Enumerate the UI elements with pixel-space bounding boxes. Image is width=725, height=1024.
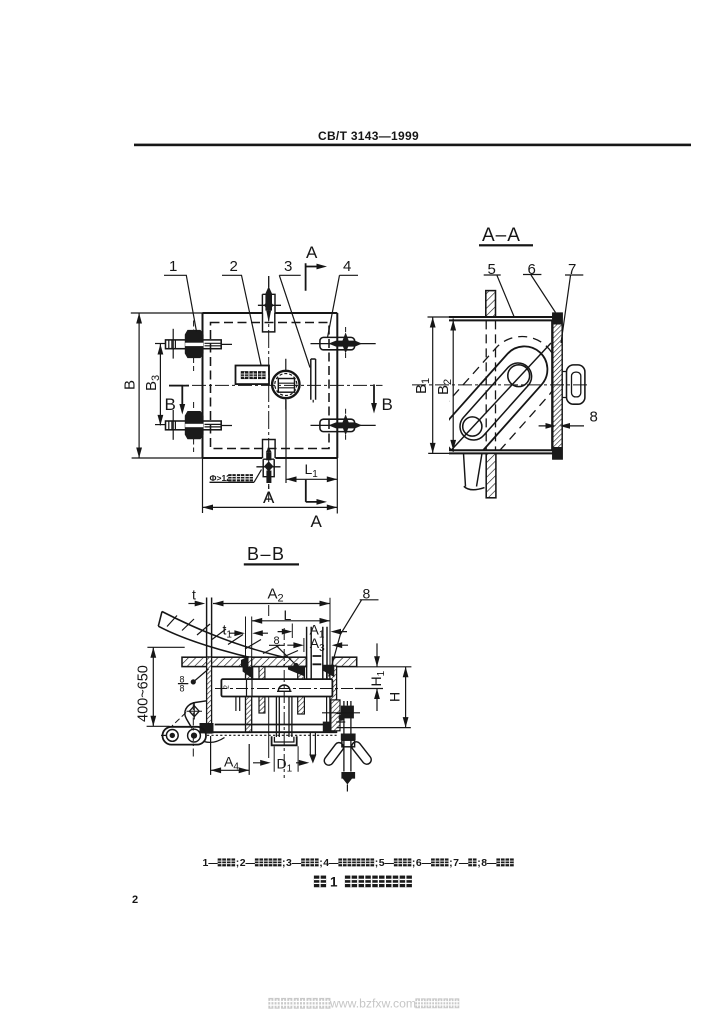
- weld blob pipe/deck: [288, 666, 305, 677]
- svg-text:H1: H1: [368, 670, 387, 686]
- chain size note: [210, 470, 262, 483]
- part label 8 leader: [329, 600, 379, 677]
- svg-text:;: ;: [477, 857, 481, 869]
- svg-text:H: H: [387, 692, 403, 702]
- svg-text:;: ;: [282, 857, 286, 869]
- watermark: [268, 997, 459, 1011]
- slide bolt bar (part 8): [221, 679, 332, 696]
- weld blob wedge tip: [241, 656, 249, 672]
- section arrow A bottom: [306, 480, 327, 505]
- wing screw bracket: [331, 700, 345, 731]
- guide bracket B above bar: [298, 667, 305, 680]
- right edge extension down: [336, 458, 338, 514]
- right extension up: [329, 598, 331, 666]
- weld label 8 mid leader: [269, 645, 295, 663]
- svg-text:L1: L1: [305, 461, 319, 480]
- screw clamp lower: [311, 409, 376, 442]
- dim t1: [229, 630, 268, 636]
- wing nut collar: [341, 734, 356, 741]
- dim A2: [213, 601, 330, 607]
- dimension B: [136, 313, 142, 458]
- hinge lower: pin cylinder: [155, 402, 232, 452]
- dim H1: [355, 643, 383, 711]
- svg-text:B: B: [165, 395, 176, 414]
- pocket hanger: [236, 697, 240, 712]
- dimension B3: [158, 344, 164, 425]
- bulkhead below deck (hatched): [207, 657, 212, 733]
- svg-text:;: ;: [375, 857, 379, 869]
- svg-text:3—: 3—: [286, 857, 303, 869]
- svg-text:B: B: [382, 395, 393, 414]
- top edge extension left: [131, 312, 203, 314]
- svg-text:Φ>12: Φ>12: [210, 473, 232, 483]
- svg-text:6: 6: [528, 261, 536, 278]
- svg-text:6—: 6—: [416, 857, 433, 869]
- box left wall extension up: [246, 617, 252, 658]
- B-B texts: [136, 544, 403, 775]
- svg-text:8: 8: [274, 635, 280, 647]
- title A-A underline: [479, 244, 533, 246]
- part label 1 leader: [164, 275, 197, 331]
- chain note text: [210, 473, 253, 483]
- svg-text:A4: A4: [224, 754, 239, 773]
- weld blob bottom left: [200, 723, 214, 733]
- part label 7 leader: [561, 275, 583, 343]
- dim t: [188, 601, 223, 607]
- hinge link: [161, 727, 225, 745]
- svg-text:A2: A2: [268, 586, 284, 605]
- plan view texts: [122, 243, 393, 531]
- bar notch dome: [277, 685, 292, 691]
- svg-text:2: 2: [230, 258, 238, 275]
- svg-text:B1: B1: [413, 378, 432, 394]
- thickness dim 8: [539, 423, 584, 429]
- wing right blade: [350, 740, 373, 766]
- small bolt below box: [310, 732, 315, 754]
- hinge R1 upper: pin cylinder: [155, 321, 232, 372]
- wing screw hex nut: [341, 706, 354, 719]
- cover inner wall line: [551, 320, 553, 450]
- svg-text:8: 8: [590, 409, 598, 426]
- part label 4 leader: [328, 275, 359, 337]
- section arrow B left: [169, 386, 189, 415]
- hinge lower: hex nut: [185, 411, 204, 439]
- svg-text:CB/T 3143—1999: CB/T 3143—1999: [318, 129, 419, 143]
- chain pipe below box: [464, 453, 485, 489]
- chain link circle lower: [463, 417, 482, 436]
- handle (part 3) plan: [311, 359, 316, 400]
- svg-text:;: ;: [449, 857, 453, 869]
- svg-text:t: t: [192, 587, 196, 603]
- svg-text:A: A: [311, 512, 323, 531]
- header rule: [134, 144, 691, 147]
- screw clamp upper: [311, 327, 376, 360]
- dim A1: [278, 624, 347, 639]
- weld label 8/8 left: [178, 669, 209, 684]
- svg-text:;: ;: [412, 857, 416, 869]
- box left wall: [246, 657, 252, 732]
- box right wall + cover: [330, 666, 337, 732]
- svg-text:1: 1: [330, 875, 338, 890]
- svg-text:2: 2: [224, 685, 231, 689]
- svg-text:400~650: 400~650: [136, 665, 152, 722]
- chain link circle upper: [508, 365, 530, 387]
- svg-text:8: 8: [180, 684, 185, 694]
- svg-text:5—: 5—: [379, 857, 396, 869]
- bottom plate: [215, 724, 333, 726]
- svg-text:4—: 4—: [323, 857, 340, 869]
- svg-text:8: 8: [363, 586, 371, 602]
- dimension B1: [430, 317, 436, 453]
- shell wedge plate: [158, 612, 302, 669]
- deck plate right (hatched): [333, 657, 357, 666]
- bottom edge extension left: [132, 457, 203, 459]
- svg-text:;: ;: [236, 857, 240, 869]
- hinge R1 upper: hex nut: [185, 330, 204, 358]
- pipe weld marks: [313, 656, 322, 664]
- horizontal centerline: [169, 384, 383, 386]
- figure caption: [314, 875, 412, 890]
- wing left blade: [322, 741, 345, 767]
- svg-text:A: A: [306, 243, 318, 262]
- chain pipe vertical: [307, 627, 327, 679]
- svg-text:A–A: A–A: [482, 225, 521, 246]
- guide bracket A below bar: [259, 697, 265, 714]
- D1 left extension via notch: [268, 605, 270, 758]
- guide bracket A above bar: [259, 667, 265, 680]
- svg-text:B2: B2: [435, 379, 454, 395]
- dim D1: [253, 746, 309, 772]
- dim A4: [211, 736, 250, 775]
- left edge extension down: [202, 458, 204, 513]
- top keeper latch: [258, 276, 281, 332]
- cover plate (hatched): [553, 313, 562, 459]
- svg-text:B–B: B–B: [247, 544, 286, 564]
- centerline A-A: [412, 384, 589, 386]
- bulkhead above box (hatched): [486, 291, 496, 318]
- bulkhead below box (hatched): [486, 453, 496, 497]
- bulkhead above deck: [207, 598, 212, 658]
- svg-text:7—: 7—: [453, 857, 470, 869]
- box outline plan view: [203, 313, 338, 458]
- weld blob left wall/deck: [243, 667, 254, 680]
- dim H: [337, 667, 411, 728]
- section arrow B right: [371, 384, 377, 413]
- part label 2 leader: [222, 275, 261, 365]
- chain diagonal: [450, 343, 552, 452]
- A-A texts: [413, 225, 598, 426]
- svg-text:;: ;: [319, 857, 323, 869]
- dim 400~650: [147, 647, 185, 726]
- deck plate left (hatched): [182, 657, 306, 666]
- handle: [562, 365, 585, 404]
- svg-text:B: B: [122, 380, 139, 390]
- caption legend line: [203, 857, 514, 869]
- rod end arrow: [341, 772, 355, 785]
- pipe centerline: [283, 628, 285, 778]
- svg-text:5: 5: [488, 261, 496, 278]
- weld blob bottom right: [323, 722, 335, 733]
- part label 3 leader: [279, 275, 310, 367]
- dimension L1: [286, 400, 337, 483]
- box bottom extension left: [428, 452, 449, 454]
- bar pocket wall line: [247, 679, 253, 696]
- section arrow A top: [306, 263, 327, 291]
- svg-text:1: 1: [169, 258, 177, 275]
- bottom keeper latch: [256, 440, 280, 490]
- bulkhead hidden (dashed) through box: [486, 320, 495, 450]
- svg-text:A: A: [263, 488, 275, 507]
- svg-text:B3: B3: [143, 375, 162, 391]
- svg-text:8—: 8—: [481, 857, 498, 869]
- svg-text:2: 2: [132, 894, 138, 906]
- hinge bracket: [172, 701, 207, 757]
- dim A3: [287, 638, 348, 652]
- title B-B underline: [244, 563, 299, 565]
- svg-text:www.bzfxw.com: www.bzfxw.com: [329, 997, 416, 1011]
- svg-text:2—: 2—: [240, 857, 257, 869]
- dim L: [252, 618, 330, 624]
- part label 5 leader: [484, 275, 514, 317]
- warning plate: [236, 366, 270, 385]
- box top extension left: [428, 316, 449, 318]
- svg-text:t1: t1: [223, 622, 233, 641]
- box top wall: [449, 317, 556, 320]
- deck extension line right: [357, 666, 412, 668]
- wing screw rod: [344, 701, 351, 772]
- dimension B2: [450, 319, 456, 452]
- weld blob right wall/deck: [323, 665, 335, 678]
- svg-text:L: L: [284, 607, 292, 623]
- svg-text:3: 3: [284, 258, 292, 275]
- packing top (black): [552, 313, 562, 324]
- cover dashed outline: [211, 323, 330, 449]
- guide bracket B below bar: [298, 697, 305, 715]
- packing bottom (black): [552, 447, 562, 459]
- drain socket: [272, 697, 297, 746]
- porthole nut: [272, 359, 299, 410]
- bolt centerline: [215, 688, 383, 690]
- box bottom wall: [449, 450, 562, 453]
- svg-text:4: 4: [343, 258, 351, 275]
- svg-text:7: 7: [568, 261, 576, 278]
- dimension A bottom: [203, 505, 338, 511]
- svg-text:1—: 1—: [203, 857, 220, 869]
- part label 6 leader: [523, 275, 556, 313]
- vertical centerline: [268, 276, 270, 502]
